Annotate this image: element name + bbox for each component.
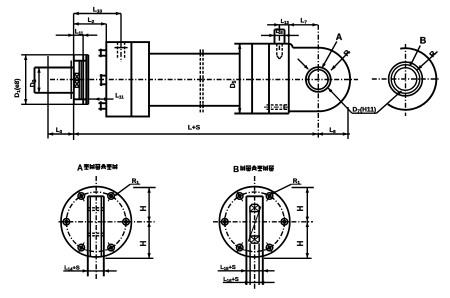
dim L11 upper	[56, 29, 98, 55]
dim D1(e8) extension lines	[21, 55, 88, 105]
svg-text:L7: L7	[301, 18, 308, 25]
cap bottom hidden bolt hole	[264, 105, 289, 109]
head block	[106, 42, 149, 116]
dim D1(e8)	[14, 55, 27, 105]
A dims H H	[105, 188, 155, 259]
ear hole circles	[306, 67, 331, 92]
cylinder tube	[149, 54, 240, 106]
rod end shoulder line	[70, 61, 72, 100]
A lug hole hidden lines	[88, 208, 104, 236]
ear B outline arc	[388, 48, 437, 110]
svg-text:D1(e8): D1(e8)	[14, 79, 21, 98]
head mid boss	[100, 74, 107, 86]
svg-text:H: H	[139, 205, 148, 211]
svg-text:A: A	[336, 32, 343, 42]
dim D8	[261, 28, 299, 37]
radius R leader (ear B)	[417, 48, 438, 69]
B dim L16+S	[223, 277, 275, 284]
svg-text:L13: L13	[281, 19, 290, 25]
A label R1 with leader	[114, 178, 140, 196]
svg-text:B: B	[420, 36, 427, 46]
head top port boss	[99, 49, 107, 58]
A lug plate edge-on	[88, 196, 104, 276]
dim L8	[318, 107, 350, 139]
svg-text:H: H	[296, 240, 305, 246]
svg-text:L+S: L+S	[188, 125, 201, 132]
extension line rod shoulder	[47, 56, 49, 139]
B dim L15+S	[218, 265, 275, 272]
head bolt hidden lines	[115, 42, 128, 62]
ear lug outline	[289, 44, 350, 112]
main centerline	[50, 79, 358, 81]
dim L2	[74, 17, 107, 42]
B dims H H	[264, 188, 314, 259]
svg-text:D2: D2	[30, 79, 38, 87]
svg-text:L15+S: L15+S	[220, 265, 236, 271]
A dim L14+S	[63, 265, 116, 272]
A centerlines	[59, 176, 156, 279]
svg-text:D8: D8	[276, 28, 283, 35]
rod gland	[74, 55, 87, 105]
B spherical bearing upper ring	[250, 204, 259, 211]
cap top port boss	[275, 30, 285, 44]
label A with leader	[322, 32, 343, 68]
A mounting bolts	[60, 191, 132, 253]
svg-text:L8: L8	[329, 127, 336, 134]
svg-text:D5: D5	[230, 80, 238, 88]
break line right	[202, 49, 204, 112]
ear B centerlines	[372, 44, 440, 116]
dim L3	[48, 104, 74, 140]
B label R1 with leader	[270, 178, 301, 194]
break line left	[199, 49, 201, 112]
cap port hidden drill	[277, 25, 282, 59]
B bolt circle	[225, 192, 285, 252]
piston rod outline	[35, 68, 74, 93]
svg-text:L14+S: L14+S	[64, 265, 80, 271]
ear vertical centerline	[317, 25, 319, 139]
B spherical bearing lower ring	[250, 236, 259, 243]
gland flange plate	[86, 55, 88, 105]
title A view	[77, 164, 117, 173]
radius R leader (ear A)	[331, 47, 352, 70]
A flange circle	[61, 187, 131, 257]
svg-text:H: H	[139, 240, 148, 246]
B centerlines	[213, 176, 313, 289]
title B view	[233, 165, 274, 174]
svg-text:A: A	[77, 164, 83, 173]
dim L13 and L7	[267, 18, 318, 44]
svg-text:L16+S: L16+S	[223, 277, 239, 283]
svg-text:L11: L11	[75, 29, 84, 36]
rear cap block	[234, 44, 288, 114]
A bolt circle	[66, 192, 126, 252]
label D7(H11) with leaders	[328, 88, 402, 115]
B lug plate edge-on	[246, 196, 262, 285]
B section diagonal	[248, 207, 261, 242]
gland seal X box upper	[75, 73, 80, 80]
gland seal X box lower	[75, 81, 80, 88]
label B with leader	[410, 36, 427, 67]
svg-text:H: H	[296, 205, 305, 211]
svg-text:B: B	[233, 165, 239, 174]
dim D5	[230, 44, 242, 114]
svg-text:L3: L3	[56, 127, 63, 134]
svg-text:L11: L11	[115, 93, 124, 100]
fillet leader upper-left of ear	[298, 59, 309, 70]
head bottom port boss	[99, 101, 107, 110]
dim L11 lower	[88, 93, 124, 101]
dim D2	[30, 68, 41, 93]
B mounting bolts	[219, 191, 291, 253]
dim L10	[74, 6, 121, 55]
ear B detail rings	[389, 62, 423, 96]
B flange circle	[219, 187, 289, 257]
dim L+S	[74, 125, 318, 136]
